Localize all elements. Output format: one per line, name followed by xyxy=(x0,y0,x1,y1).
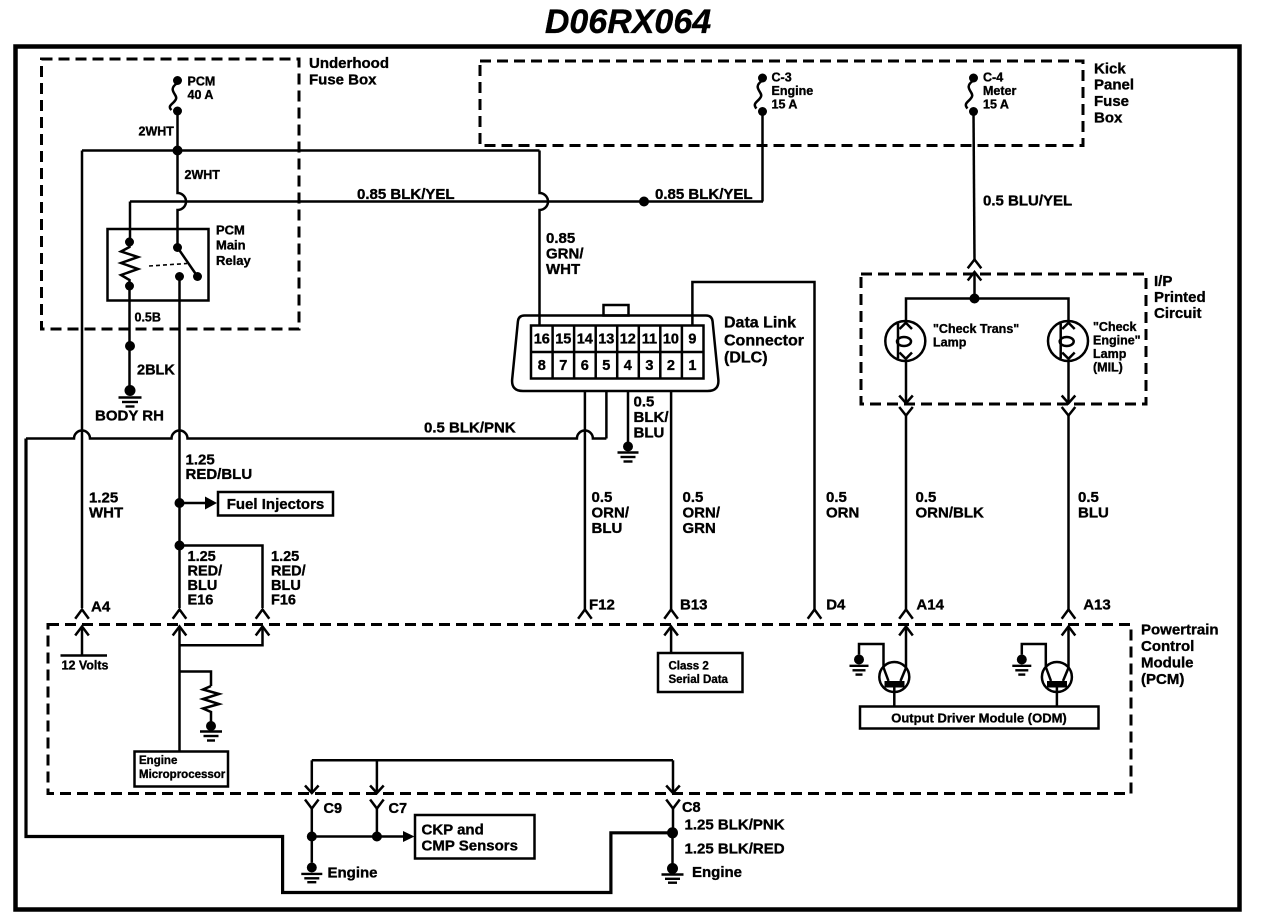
svg-text:11: 11 xyxy=(642,332,657,348)
svg-text:ORN: ORN xyxy=(826,505,859,522)
lamp Check Trans xyxy=(885,321,1019,361)
junction dot C7 xyxy=(372,832,382,842)
wire A13 to transistor Q2 xyxy=(1067,627,1070,669)
svg-text:ORN/BLK: ORN/BLK xyxy=(916,505,984,522)
svg-text:3: 3 xyxy=(645,358,653,374)
pcm exit arrows C7 xyxy=(370,786,384,837)
svg-text:E16: E16 xyxy=(188,593,214,609)
svg-text:1: 1 xyxy=(688,358,696,374)
fuse PCM 40 A xyxy=(170,75,215,116)
wire DLC pin 2 to B13 xyxy=(670,391,673,610)
svg-text:C7: C7 xyxy=(389,801,408,817)
junction dot 2WHT xyxy=(173,146,183,156)
svg-text:40 A: 40 A xyxy=(188,88,214,102)
label 1.25 RED/BLU E16 xyxy=(188,549,223,609)
svg-text:Printed: Printed xyxy=(1154,289,1206,306)
wire lamp feed xyxy=(906,299,1069,322)
svg-text:1.25 BLK/PNK: 1.25 BLK/PNK xyxy=(685,817,785,834)
wire BLK/YEL down to relay coil xyxy=(129,202,132,243)
wire DLC pin 4 to ground xyxy=(627,391,630,447)
svg-text:PCM: PCM xyxy=(188,75,216,89)
label 0.85 GRN/WHT xyxy=(546,230,584,278)
svg-text:A4: A4 xyxy=(91,599,111,616)
label 0.5 BLK/BLU xyxy=(634,393,670,441)
svg-text:B13: B13 xyxy=(680,597,708,614)
svg-text:0.85 BLK/YEL: 0.85 BLK/YEL xyxy=(357,186,455,203)
wire DLC pin 6 to F12 xyxy=(584,391,587,610)
junction dot BLK/YEL xyxy=(639,197,649,207)
svg-text:C-4: C-4 xyxy=(983,71,1003,85)
box Engine Microprocessor xyxy=(135,752,229,787)
svg-text:CKP and: CKP and xyxy=(422,822,484,839)
svg-text:Main: Main xyxy=(216,238,246,253)
pcm entry arrow D4 xyxy=(808,610,822,619)
svg-text:15 A: 15 A xyxy=(983,98,1009,112)
transistor Q1 xyxy=(879,662,909,707)
svg-text:Fuse: Fuse xyxy=(1094,93,1129,110)
pcm entry arrows A14 xyxy=(899,610,913,636)
I/P printed circuit enclosure xyxy=(861,273,1206,404)
svg-text:BODY RH: BODY RH xyxy=(95,408,164,425)
svg-text:Serial Data: Serial Data xyxy=(669,674,729,686)
wire C9/C7 to CKP sensors xyxy=(312,835,404,838)
label 1.25 RED/BLU F16 xyxy=(271,549,306,609)
svg-text:6: 6 xyxy=(581,358,589,374)
junction dot fuel injectors xyxy=(175,498,185,508)
junction dot lamp feed xyxy=(970,294,980,304)
ground C9 Engine xyxy=(301,837,377,883)
arrow into I/P (fork) xyxy=(968,260,982,269)
svg-text:Fuel Injectors: Fuel Injectors xyxy=(227,496,325,513)
svg-text:16: 16 xyxy=(534,332,550,348)
wire 2WHT to DLC pin 16 (hops over BLK/YEL) xyxy=(540,151,549,327)
wire F16 join xyxy=(180,627,263,646)
arrow to fuel injectors xyxy=(180,497,218,510)
svg-text:Engine": Engine" xyxy=(1093,334,1141,348)
svg-text:Lamp: Lamp xyxy=(933,336,967,350)
wire 0.85 BLK/YEL xyxy=(130,200,763,203)
ground DLC pin 4 xyxy=(618,442,639,462)
junction dot C9 xyxy=(307,832,317,842)
junction dot 2BLK xyxy=(125,341,135,351)
underhood fuse box enclosure xyxy=(42,55,390,329)
svg-text:Relay: Relay xyxy=(216,253,251,268)
wire E16 to microprocessor xyxy=(178,627,181,752)
svg-text:1.25 BLK/RED: 1.25 BLK/RED xyxy=(685,841,785,858)
svg-text:C9: C9 xyxy=(324,801,343,817)
svg-text:Kick: Kick xyxy=(1094,60,1126,77)
svg-text:Panel: Panel xyxy=(1094,77,1134,94)
wire 0.5 BLU lamp to A13 xyxy=(1062,361,1109,610)
svg-text:I/P: I/P xyxy=(1154,273,1172,290)
box Class 2 Serial Data xyxy=(658,653,743,692)
svg-text:C8: C8 xyxy=(682,800,701,816)
ground Q2 base xyxy=(1012,644,1046,675)
wire 0.5 BLK/PNK (hops at A4, E16, pin6 wires) xyxy=(26,431,606,439)
relay PCM Main Relay xyxy=(108,223,252,301)
svg-text:(PCM): (PCM) xyxy=(1141,671,1184,688)
svg-text:0.5: 0.5 xyxy=(1078,489,1099,506)
wire C7 drop xyxy=(376,760,379,793)
svg-text:0.5 BLK/PNK: 0.5 BLK/PNK xyxy=(424,420,516,437)
svg-text:0.5: 0.5 xyxy=(683,489,704,506)
wire 1.25 RED/BLU relay to E16 xyxy=(178,277,181,609)
svg-text:9: 9 xyxy=(688,332,696,348)
arrowhead CKP xyxy=(403,831,415,842)
wire C8 drop xyxy=(672,760,675,793)
pcm entry arrows F16 xyxy=(256,610,270,636)
junction dot F16 branch xyxy=(175,541,185,551)
arrow into I/P (head) xyxy=(968,272,982,299)
svg-text:GRN: GRN xyxy=(683,520,716,537)
ground BODY RH xyxy=(95,385,164,425)
svg-text:(DLC): (DLC) xyxy=(724,349,768,366)
svg-text:Box: Box xyxy=(1094,110,1123,127)
svg-text:2: 2 xyxy=(667,358,675,374)
svg-text:2WHT: 2WHT xyxy=(139,125,175,139)
svg-text:D4: D4 xyxy=(826,597,846,614)
wire 0.5 BLU/YEL xyxy=(974,112,975,260)
wire branch to F16 xyxy=(180,546,263,609)
label 0.5 ORN xyxy=(826,489,859,522)
svg-text:2WHT: 2WHT xyxy=(185,168,221,182)
svg-text:0.5: 0.5 xyxy=(916,489,937,506)
svg-text:GRN/: GRN/ xyxy=(546,246,584,263)
svg-text:WHT: WHT xyxy=(89,504,123,521)
junction dot C8 xyxy=(667,827,678,838)
svg-text:Powertrain: Powertrain xyxy=(1141,622,1219,639)
pcm entry arrow F12 xyxy=(578,610,592,619)
svg-text:12 Volts: 12 Volts xyxy=(62,659,109,673)
svg-text:Engine: Engine xyxy=(328,865,378,882)
label 0.5 ORN/BLU xyxy=(592,489,630,537)
fuse C-4 Meter 15 A xyxy=(966,71,1017,117)
svg-text:2BLK: 2BLK xyxy=(137,363,175,379)
svg-text:0.5: 0.5 xyxy=(634,393,655,410)
svg-text:Engine: Engine xyxy=(692,864,742,881)
pcm entry arrows A13 xyxy=(1062,610,1076,636)
svg-text:14: 14 xyxy=(577,332,593,348)
pcm exit arrows C8 xyxy=(666,786,680,833)
powertrain control module enclosure xyxy=(48,622,1219,794)
svg-text:Meter: Meter xyxy=(983,84,1016,98)
ground Q1 base xyxy=(850,644,884,675)
wire 2WHT horizontal xyxy=(82,149,540,152)
svg-text:15 A: 15 A xyxy=(772,98,798,112)
svg-text:Fuse Box: Fuse Box xyxy=(309,72,377,89)
svg-text:PCM: PCM xyxy=(216,223,245,238)
wire C-3 down to BLK/YEL xyxy=(761,112,764,202)
svg-text:12: 12 xyxy=(620,332,636,348)
svg-text:0.85: 0.85 xyxy=(546,230,575,247)
svg-text:BLU: BLU xyxy=(1078,505,1109,522)
fuse C-3 Engine 15 A xyxy=(755,71,813,117)
svg-text:13: 13 xyxy=(598,332,614,348)
svg-text:Output Driver Module (ODM): Output Driver Module (ODM) xyxy=(891,711,1067,726)
wire C8 to ground xyxy=(671,833,674,864)
svg-text:Circuit: Circuit xyxy=(1154,305,1202,322)
svg-text:D06RX064: D06RX064 xyxy=(545,3,711,41)
pcm entry arrows A4 xyxy=(75,610,89,636)
kick panel fuse box enclosure xyxy=(480,60,1134,145)
svg-text:ORN/: ORN/ xyxy=(592,505,630,522)
label 0.5 ORN/GRN xyxy=(683,489,721,537)
box CKP and CMP Sensors xyxy=(415,815,535,859)
pcm entry arrows E16 xyxy=(173,610,187,636)
ground resistor xyxy=(200,721,222,741)
svg-text:0.5B: 0.5B xyxy=(135,311,161,325)
svg-text:"Check Trans": "Check Trans" xyxy=(933,322,1019,336)
svg-text:Connector: Connector xyxy=(724,332,804,349)
transistor Q2 xyxy=(1042,662,1072,707)
wire DLC pin 5 down xyxy=(605,391,608,439)
svg-text:BLU: BLU xyxy=(592,520,623,537)
DLC pin grid xyxy=(531,326,704,379)
svg-text:RED/BLU: RED/BLU xyxy=(186,466,253,483)
svg-text:A14: A14 xyxy=(916,597,944,614)
svg-text:10: 10 xyxy=(663,332,679,348)
svg-text:Data Link: Data Link xyxy=(724,315,796,332)
svg-text:Underhood: Underhood xyxy=(309,55,389,72)
box Fuel Injectors xyxy=(218,492,333,516)
svg-text:A13: A13 xyxy=(1083,597,1111,614)
svg-text:WHT: WHT xyxy=(546,261,580,278)
svg-text:BLU: BLU xyxy=(634,424,665,441)
svg-text:0.5 BLU/YEL: 0.5 BLU/YEL xyxy=(983,193,1072,210)
svg-text:"Check: "Check xyxy=(1093,320,1136,334)
wire C9 drop xyxy=(311,760,314,793)
svg-text:0.5: 0.5 xyxy=(592,489,613,506)
DLC connector body xyxy=(512,305,804,391)
svg-text:7: 7 xyxy=(559,358,567,374)
svg-text:0.5: 0.5 xyxy=(826,489,847,506)
svg-text:Microprocessor: Microprocessor xyxy=(139,769,226,781)
12 volts supply xyxy=(61,627,109,673)
svg-text:Lamp: Lamp xyxy=(1093,347,1127,361)
svg-text:CMP Sensors: CMP Sensors xyxy=(422,837,518,854)
wire 2WHT to relay switch (hops over BLK/YEL) xyxy=(178,151,187,248)
svg-text:5: 5 xyxy=(602,358,610,374)
svg-text:(MIL): (MIL) xyxy=(1093,361,1123,375)
svg-text:ORN/: ORN/ xyxy=(683,505,721,522)
svg-text:F12: F12 xyxy=(589,597,615,614)
wire B13 to class 2 box xyxy=(670,627,673,654)
svg-text:8: 8 xyxy=(538,358,546,374)
svg-text:4: 4 xyxy=(624,358,632,374)
wire 0.5 ORN/BLK lamp to A14 xyxy=(899,361,984,610)
wire sensor header xyxy=(312,759,673,762)
svg-text:15: 15 xyxy=(555,332,571,348)
svg-text:Control: Control xyxy=(1141,638,1194,655)
svg-text:0.85 BLK/YEL: 0.85 BLK/YEL xyxy=(655,186,753,203)
box Output Driver Module (ODM) xyxy=(860,707,1099,729)
wire A14 to transistor Q1 xyxy=(905,627,908,669)
big loop wire DLC to C8 xyxy=(26,439,668,893)
pcm entry arrows B13 xyxy=(664,610,678,636)
svg-text:Module: Module xyxy=(1141,655,1194,672)
ground C8 Engine xyxy=(662,863,743,883)
svg-text:Engine: Engine xyxy=(772,84,814,98)
svg-text:F16: F16 xyxy=(271,593,296,609)
wire DLC pin 9 to D4 xyxy=(692,282,814,610)
wire 1.25 WHT to A4 xyxy=(81,151,84,609)
resistor branch xyxy=(180,672,220,722)
lamp Check Engine (MIL) xyxy=(1048,320,1141,375)
svg-text:C-3: C-3 xyxy=(772,71,792,85)
svg-text:Class 2: Class 2 xyxy=(669,660,709,672)
wire 0.5B coil to ground xyxy=(128,286,131,390)
pcm exit arrows C9 xyxy=(305,786,319,837)
svg-text:BLK/: BLK/ xyxy=(634,409,670,426)
wire fuse to junction xyxy=(176,111,179,151)
svg-text:Engine: Engine xyxy=(139,755,177,767)
